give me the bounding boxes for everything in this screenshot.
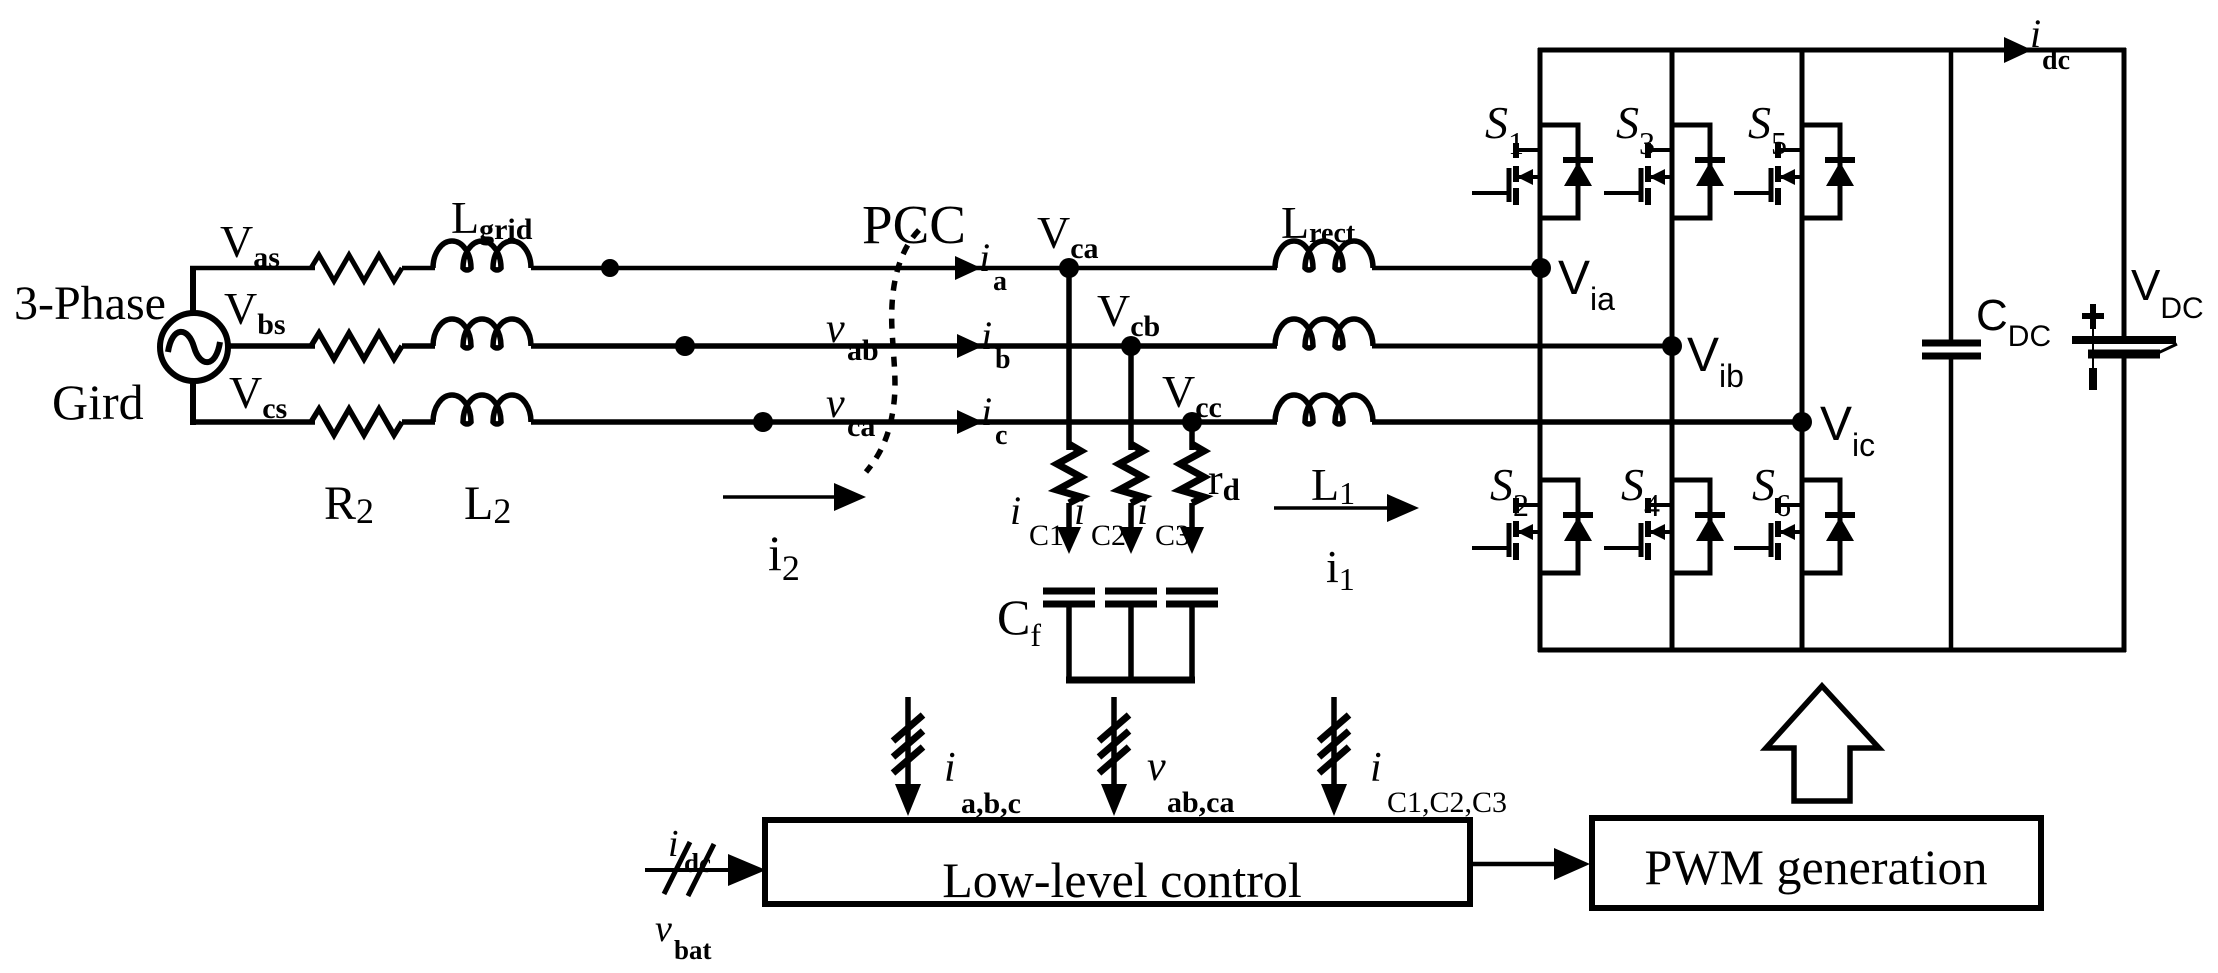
label i_a	[979, 235, 1007, 297]
wire source vertical	[190, 268, 196, 313]
label vbat	[655, 908, 712, 965]
capacitor CDC	[1922, 48, 1981, 652]
transistor S2	[1472, 480, 1593, 573]
wire phase A to bridge	[531, 266, 1543, 271]
capacitor bottom bus	[1066, 677, 1195, 684]
svg-text:a: a	[993, 266, 1007, 297]
inductor Lrect phase B	[1275, 319, 1373, 348]
inductor Lgrid phase A	[433, 241, 531, 270]
arrow idc	[2004, 37, 2032, 63]
shunt wire C2 lower with arrow iC2	[1119, 503, 1143, 554]
label v_abca	[1147, 744, 1235, 819]
capacitor Cf 1	[1043, 591, 1095, 680]
transistor S3	[1604, 125, 1725, 218]
svg-text:i: i	[1137, 488, 1148, 533]
wire phase C mid	[402, 419, 435, 425]
transistor S4	[1604, 480, 1725, 573]
svg-text:v: v	[1147, 744, 1166, 790]
transistor S6	[1734, 480, 1855, 573]
svg-text:i: i	[944, 745, 956, 791]
label i_c	[981, 389, 1007, 451]
block PWM generation	[1592, 818, 2041, 908]
svg-text:C1: C1	[1029, 519, 1064, 552]
svg-text:dc: dc	[2042, 45, 2070, 76]
node Vcb	[1121, 336, 1141, 356]
resistor R2 phase A	[311, 255, 402, 281]
label idc input	[668, 823, 711, 878]
current arrow i_a	[955, 256, 981, 280]
shunt wire C1	[1066, 268, 1072, 450]
svg-text:i: i	[668, 823, 679, 865]
svg-text:a,b,c: a,b,c	[961, 787, 1021, 820]
label i_abc	[944, 745, 1021, 820]
svg-text:PWM generation: PWM generation	[1645, 839, 1988, 895]
DC top bus	[1538, 48, 2126, 53]
label i_C2	[1074, 488, 1126, 552]
node Vcc	[1182, 412, 1202, 432]
svg-text:i: i	[981, 389, 992, 434]
wire source vertical lower	[190, 381, 196, 425]
wire phase A left	[190, 266, 315, 271]
shunt wire C1 lower with arrow iC1	[1057, 503, 1081, 554]
svg-text:Gird: Gird	[52, 374, 144, 430]
transistor S5	[1734, 125, 1855, 218]
svg-text:i: i	[1370, 745, 1382, 791]
svg-text:C1,C2,C3: C1,C2,C3	[1387, 786, 1507, 819]
battery VDC	[2072, 48, 2177, 652]
svg-text:C3: C3	[1155, 519, 1190, 552]
wire phase B to bridge	[531, 343, 1674, 349]
shunt wire C3	[1189, 422, 1195, 450]
svg-text:i: i	[1010, 488, 1021, 533]
inductor Lrect phase C	[1275, 395, 1373, 424]
resistor R2 phase B	[311, 333, 402, 359]
PCC dashed boundary	[866, 230, 919, 472]
current arrow i_c	[957, 410, 983, 434]
capacitor Cf 2	[1105, 591, 1157, 680]
arrow control to PWM	[1470, 848, 1590, 880]
svg-text:3-Phase: 3-Phase	[14, 277, 166, 330]
wire phase B left	[228, 343, 315, 349]
svg-text:v: v	[655, 908, 672, 950]
svg-text:v: v	[826, 381, 845, 427]
svg-text:i: i	[2030, 11, 2041, 56]
label 3-Phase Gird	[14, 277, 166, 430]
inductor L2 phase C	[433, 395, 531, 424]
inductor L2 phase B	[433, 319, 531, 348]
signal arrow v_abca	[1099, 697, 1129, 816]
input arrow idc/vbat	[645, 842, 766, 896]
svg-text:C2: C2	[1091, 519, 1126, 552]
junction dot phase C	[753, 412, 773, 432]
label idc	[2030, 11, 2070, 76]
current arrow i_b	[957, 334, 983, 358]
AC source G1 (3-phase grid)	[160, 313, 228, 381]
svg-text:dc: dc	[684, 848, 711, 878]
svg-text:i: i	[981, 313, 992, 358]
junction dot phase A	[601, 259, 619, 277]
wire phase B mid	[402, 343, 435, 349]
bridge leg C	[1800, 48, 1805, 652]
label i_C3	[1137, 488, 1190, 552]
svg-text:bat: bat	[674, 935, 712, 965]
wire phase C left	[190, 419, 315, 425]
inductor Lrect phase A	[1275, 241, 1373, 270]
node Vib	[1662, 336, 1682, 356]
svg-text:c: c	[995, 420, 1007, 451]
shunt wire C2	[1128, 346, 1134, 450]
wire phase A mid	[402, 266, 435, 271]
signal arrow i_C123	[1319, 697, 1349, 816]
block Low-level control	[765, 820, 1470, 908]
svg-text:Low-level control: Low-level control	[942, 852, 1302, 908]
label i_C123	[1370, 745, 1507, 819]
bridge leg A	[1538, 48, 1543, 652]
resistor damping 2	[1119, 444, 1143, 503]
svg-text:b: b	[995, 344, 1011, 375]
PWM hollow arrow	[1766, 686, 1879, 801]
junction dot phase B	[675, 336, 695, 356]
svg-text:v: v	[826, 306, 845, 352]
resistor R2 phase C	[311, 409, 402, 435]
shunt wire C3 lower with arrow iC3	[1180, 503, 1204, 554]
bridge leg B	[1670, 48, 1675, 652]
label i_C1	[1010, 488, 1064, 552]
svg-text:ca: ca	[847, 410, 875, 443]
wire phase C to bridge	[531, 419, 1804, 425]
label i_b	[981, 313, 1011, 375]
svg-text:PCC: PCC	[862, 194, 966, 255]
svg-text:i: i	[1074, 488, 1085, 533]
svg-text:i: i	[979, 235, 990, 280]
resistor damping rd	[1180, 444, 1204, 503]
svg-text:ab: ab	[847, 334, 879, 367]
capacitor Cf 3	[1166, 591, 1218, 680]
signal arrow i_abc	[893, 697, 923, 816]
transistor S1	[1472, 125, 1593, 218]
resistor damping 1	[1057, 444, 1081, 503]
node Vca	[1059, 258, 1079, 278]
DC bottom bus	[1538, 648, 2126, 653]
node Vic	[1792, 412, 1812, 432]
svg-text:ab,ca: ab,ca	[1167, 786, 1235, 819]
arrow L1	[1274, 494, 1419, 522]
arrow i2	[723, 483, 866, 511]
node Via	[1531, 258, 1551, 278]
